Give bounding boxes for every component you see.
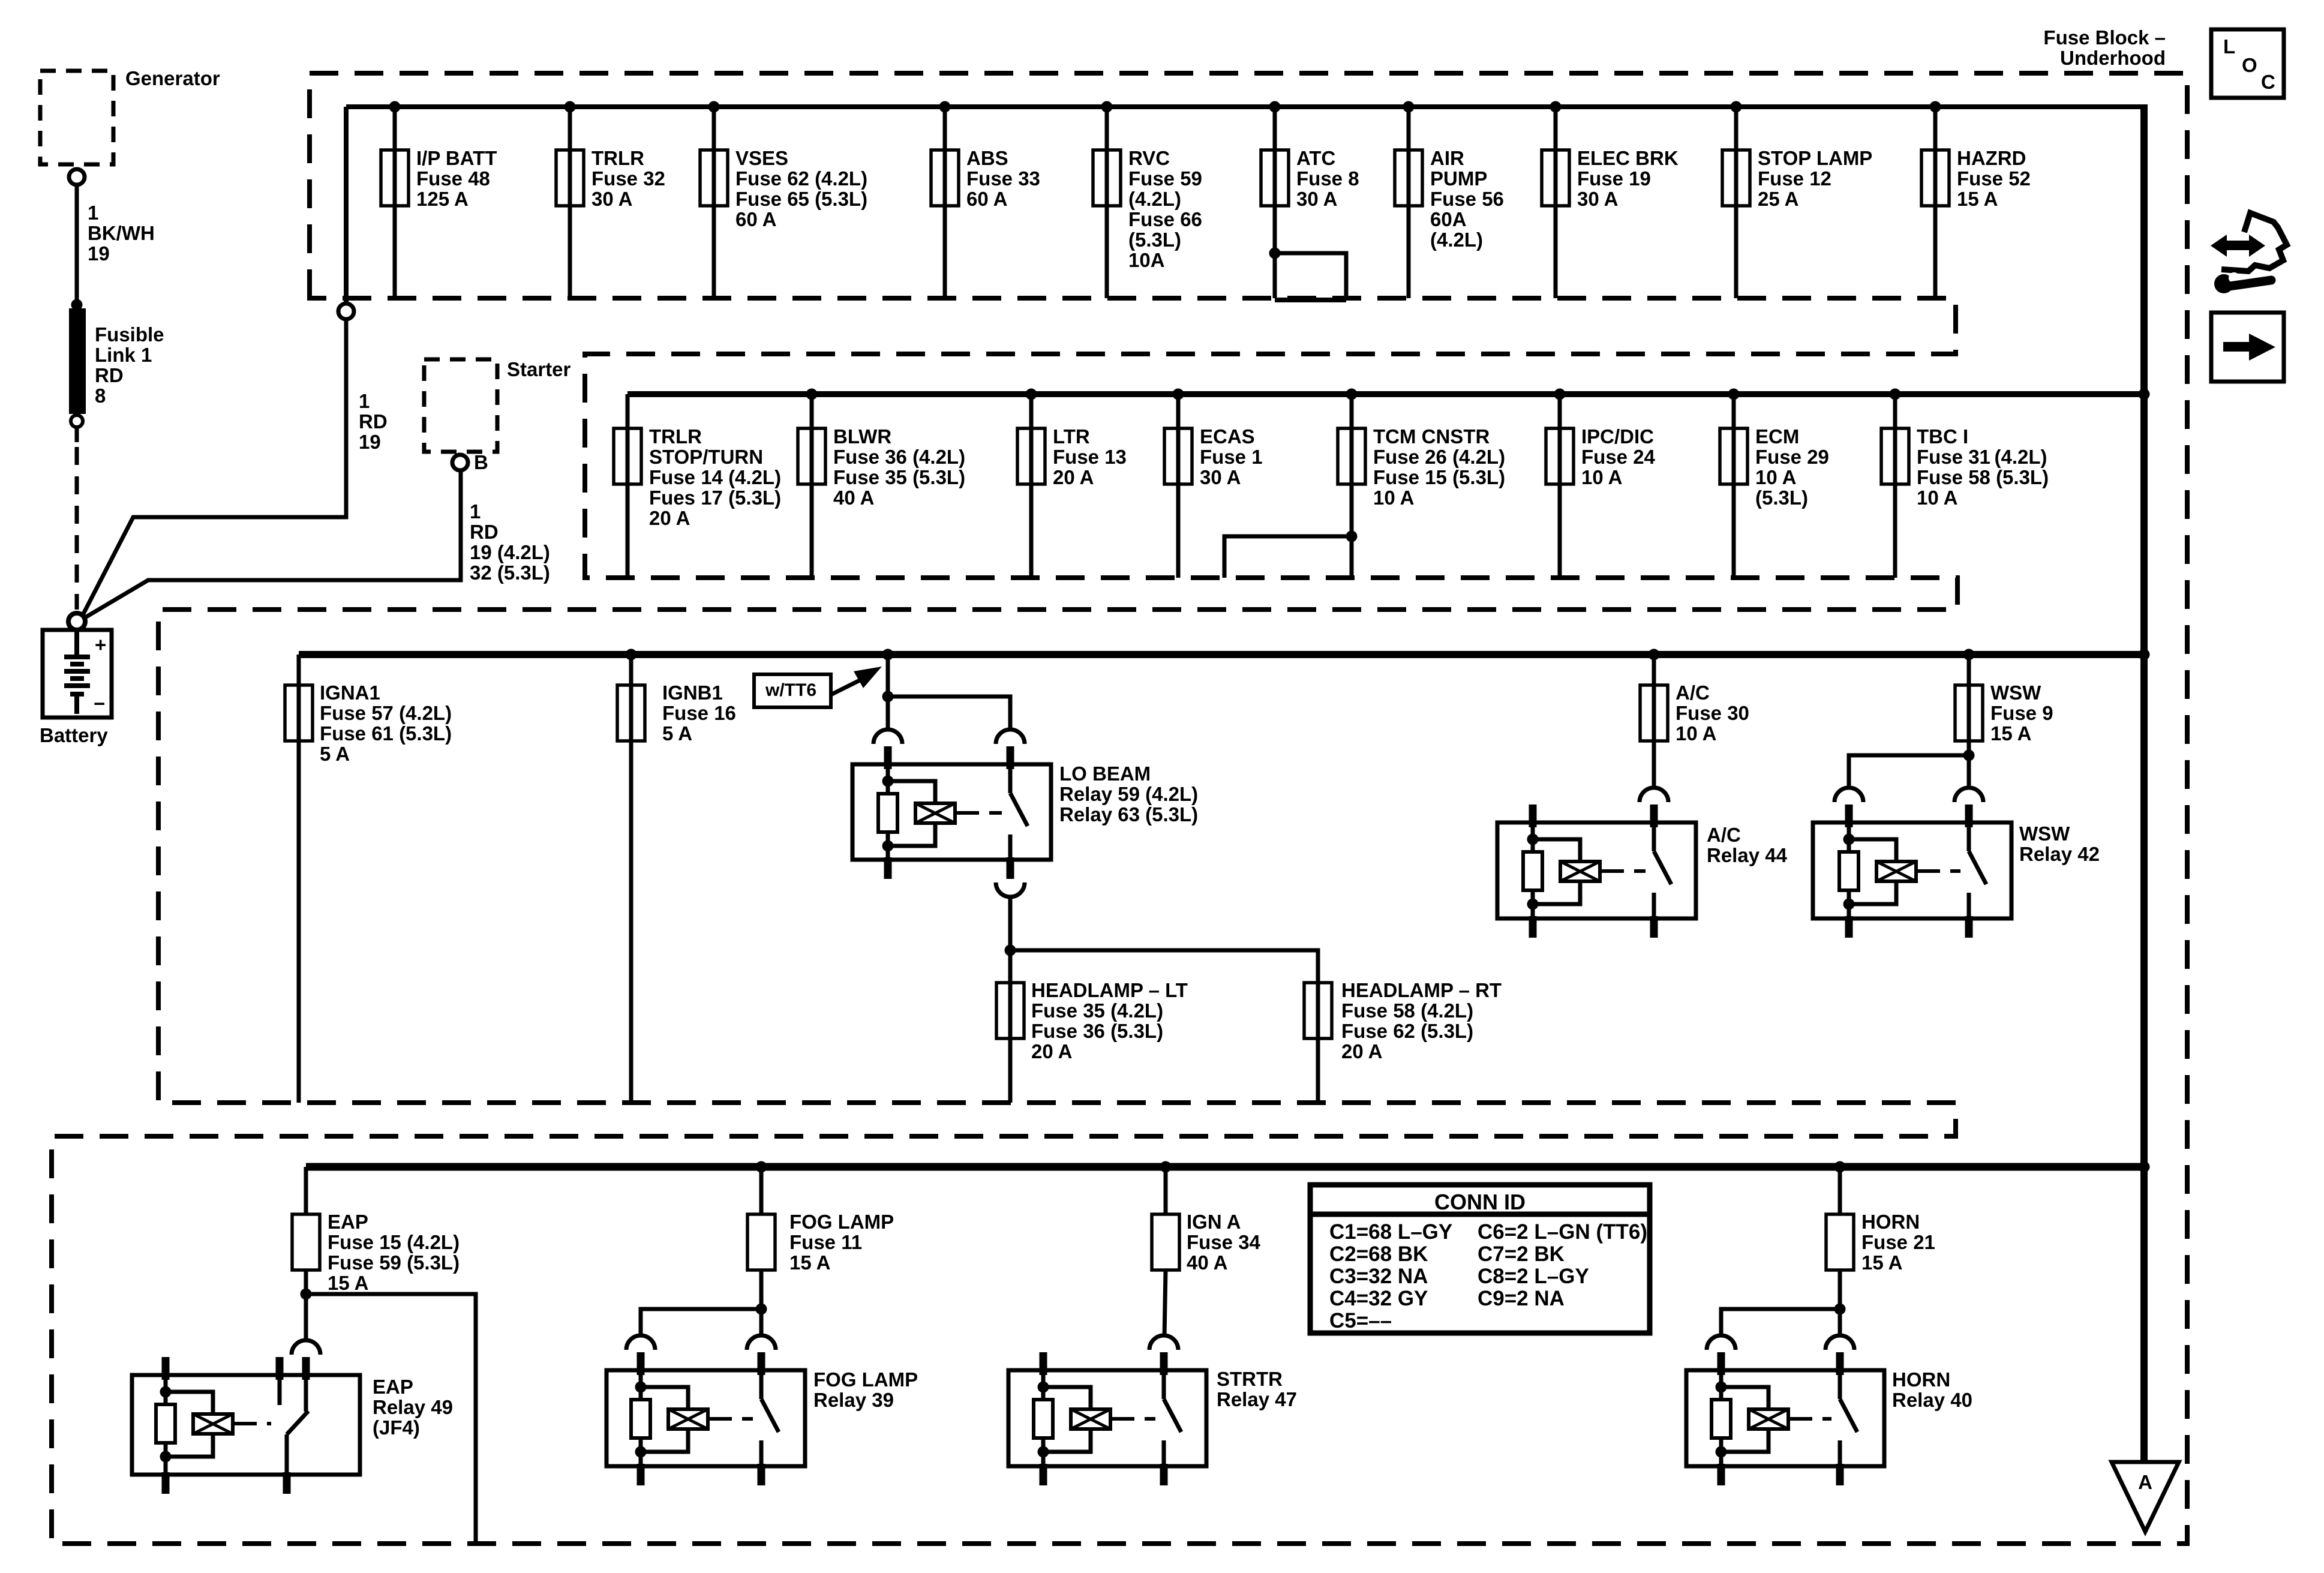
wire fuse WSW (1963, 649, 1975, 661)
fuse FOG LAMP (747, 1214, 775, 1270)
svg-text:Battery: Battery (40, 724, 108, 746)
wire fuse TRLR STOP/TURN (626, 394, 630, 578)
wire TCM CNSTR loop (1346, 531, 1358, 542)
wire fuse A/C (1649, 649, 1660, 661)
fuse ATC (1261, 150, 1289, 206)
fuse AIR PUMP (1395, 150, 1422, 206)
svg-text:A: A (2138, 1471, 2152, 1493)
LOC box (2211, 29, 2284, 98)
wire fuse RVC (1105, 107, 1109, 298)
starter pin B connector (452, 455, 468, 470)
wire fuse AIR PUMP (1407, 107, 1411, 298)
wTT6 box (754, 674, 831, 707)
wire fuse I/P BATT (393, 107, 397, 298)
relay WSW Relay 42 (1813, 822, 2011, 918)
wire generator to fusible link (75, 185, 79, 304)
svg-text:C: C (2261, 71, 2275, 93)
svg-text:Generator: Generator (125, 67, 220, 89)
wire fuse TRLR (568, 107, 572, 298)
wire fuse block feed left (344, 107, 349, 304)
fuse TCM CNSTR (1338, 428, 1365, 484)
arrow right symbol (2223, 342, 2254, 352)
wire fuse IPC/DIC (1558, 394, 1562, 578)
wire fuse TCM CNSTR (1350, 394, 1354, 578)
wire dashed to battery (75, 447, 79, 610)
fuse ELEC BRK (1542, 150, 1569, 206)
wire fuse BLWR (810, 394, 814, 578)
svg-text:CONN ID: CONN ID (1434, 1190, 1526, 1214)
fuse EAP (292, 1214, 320, 1270)
wire HORN below fuse (1838, 1270, 1842, 1335)
fusible link 1 (69, 308, 86, 414)
bus wire ignition (299, 651, 2144, 658)
connector A triangle (2112, 1462, 2179, 1532)
fuse IPC/DIC (1546, 428, 1574, 484)
fuse IGNA1 (285, 685, 313, 741)
fuse BLWR (798, 428, 825, 484)
svg-text:w/TT6: w/TT6 (765, 680, 816, 700)
relay A/C Relay 44 (1497, 822, 1696, 918)
arrow box (2211, 313, 2284, 382)
bus wire row 2 (627, 391, 2144, 397)
wire fuse HORN (1834, 1161, 1846, 1173)
fuse A/C (1640, 685, 1668, 741)
fuse HEADLAMP-RT (1304, 983, 1332, 1038)
wire EAP below fuse (304, 1270, 308, 1339)
wire EAP branch right (306, 1294, 476, 1544)
relay EAP Relay 49 (132, 1375, 360, 1475)
relay FOG LAMP Relay 39 (606, 1370, 805, 1466)
relay LO BEAM Relay 59/63 (852, 764, 1051, 860)
wire right trunk (2140, 104, 2148, 1462)
wire IGN A to STRTR relay (1164, 1270, 1166, 1337)
battery positive connector (68, 613, 85, 630)
wire ATC loop (1269, 248, 1281, 259)
relay HORN Relay 40 (1686, 1370, 1884, 1466)
service icon (2223, 241, 2253, 250)
wire fuse TBC I (1893, 394, 1897, 578)
svg-text:Fuse Block –Underhood: Fuse Block –Underhood (2043, 26, 2166, 69)
starter dashed box (424, 359, 497, 452)
fusible link bottom connector (71, 415, 83, 427)
fuse STOP LAMP (1722, 150, 1750, 206)
wire fuse IGNB1 (629, 655, 633, 1103)
wire fuse ATC (1273, 107, 1277, 298)
fuse TRLR (556, 150, 584, 206)
fuse HEADLAMP-LT (996, 983, 1024, 1038)
connector below fuse block (338, 304, 354, 319)
wire below fusible link (75, 427, 79, 442)
wire fuse VSES (712, 107, 716, 298)
svg-text:−: − (94, 692, 105, 715)
svg-text:+: + (95, 634, 106, 656)
svg-text:B: B (474, 451, 488, 473)
wire LO BEAM feed (882, 649, 894, 661)
wire fuse STOP LAMP (1734, 107, 1739, 298)
wTT6 arrow (831, 679, 862, 695)
wire fuse ABS (943, 107, 947, 298)
wire fuse HAZRD (1933, 107, 1938, 298)
fuse HORN (1826, 1214, 1854, 1270)
svg-text:L: L (2223, 35, 2235, 58)
fuse I/P BATT (381, 150, 409, 206)
fuse WSW (1955, 685, 1983, 741)
fuse IGNB1 (617, 685, 645, 741)
bus wire bottom (306, 1163, 2144, 1171)
wire FOG LAMP below fuse (759, 1270, 764, 1335)
bus wire row 1 (346, 104, 2144, 109)
fuse ABS (931, 150, 959, 206)
wire fuse ELEC BRK (1554, 107, 1558, 298)
svg-text:Starter: Starter (507, 358, 571, 380)
fuse TRLR STOP/TURN (614, 428, 641, 484)
generator pin connector (69, 169, 85, 185)
battery box (43, 630, 112, 718)
fuse HAZRD (1921, 150, 1949, 206)
wire headlamp branch (1005, 945, 1016, 956)
wire starter B to battery (83, 470, 461, 619)
svg-text:O: O (2242, 54, 2257, 76)
wire fuse LTR (1029, 394, 1034, 578)
battery symbol (74, 629, 79, 655)
wire LO BEAM output (1008, 897, 1013, 950)
CONN ID table (1310, 1185, 1650, 1333)
relay STRTR Relay 47 (1008, 1370, 1206, 1466)
wire fuse IGN A (1160, 1161, 1172, 1173)
fuse RVC (1093, 150, 1121, 206)
wire fuse ECM (1732, 394, 1736, 578)
fuse IGN A (1152, 1214, 1179, 1270)
wire fuse EAP (304, 1167, 308, 1214)
fuse TBC I (1881, 428, 1909, 484)
wire feed to battery (82, 319, 346, 616)
wire fuse ECAS (1176, 394, 1181, 578)
fuse ECM (1720, 428, 1747, 484)
fuse LTR (1017, 428, 1045, 484)
wire fuse FOG LAMP (756, 1161, 767, 1173)
fuse VSES (700, 150, 728, 206)
junction fusible link top (71, 299, 83, 311)
fuse ECAS (1164, 428, 1192, 484)
wire fuse IGNA1 (297, 655, 301, 1103)
generator dashed box (40, 71, 113, 164)
